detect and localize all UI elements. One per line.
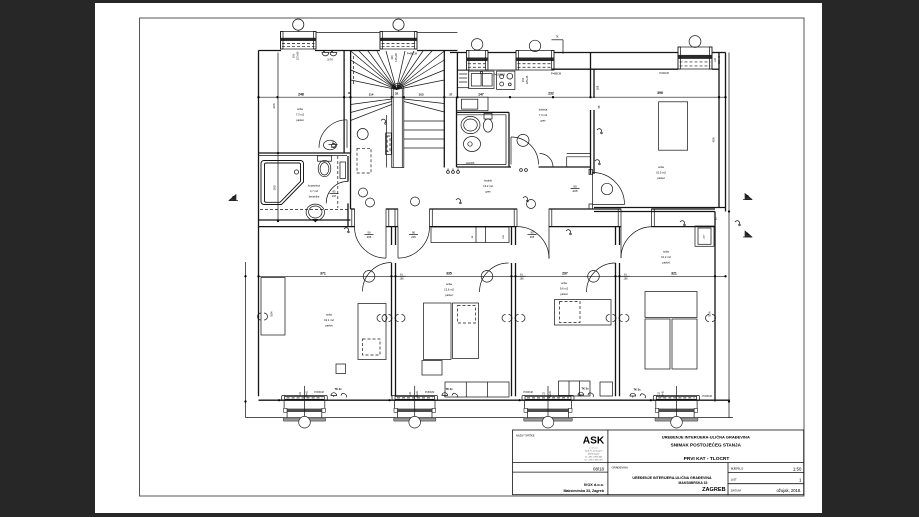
tall cabinet room1 xyxy=(261,278,285,336)
svg-text:GRAĐEVINA: GRAĐEVINA xyxy=(612,465,629,469)
svg-text:P=138CM: P=138CM xyxy=(493,72,505,76)
svg-text:100: 100 xyxy=(292,53,296,58)
svg-text:122: 122 xyxy=(658,391,661,396)
svg-text:137+60: 137+60 xyxy=(296,51,300,60)
svg-text:122: 122 xyxy=(409,391,412,396)
kitchen wall inner line xyxy=(457,69,466,71)
svg-text:296: 296 xyxy=(272,103,276,108)
svg-text:504: 504 xyxy=(708,311,712,316)
kitchen sink xyxy=(469,71,494,88)
closet niche xyxy=(457,97,489,111)
svg-text:205: 205 xyxy=(411,235,416,239)
lamp circles bedrooms xyxy=(363,271,375,283)
svg-text:37: 37 xyxy=(449,92,453,96)
bath B tub xyxy=(461,116,480,133)
door D3 swing xyxy=(548,227,550,259)
stair post xyxy=(386,133,392,155)
bottom window/balcony 3 xyxy=(522,395,574,400)
dimension line y276 xyxy=(259,275,726,277)
corridor left wall xyxy=(347,156,349,181)
door rooms1-2 arc xyxy=(363,263,392,292)
window W4 (hall) xyxy=(516,51,554,71)
bath A dashed ceiling line xyxy=(260,208,348,210)
svg-text:205: 205 xyxy=(572,189,577,193)
svg-text:P=83CM: P=83CM xyxy=(702,395,711,398)
svg-text:P=83CM: P=83CM xyxy=(523,391,532,394)
svg-text:10000 Zagreb: 10000 Zagreb xyxy=(588,453,600,456)
svg-text:soba: soba xyxy=(297,107,303,111)
svg-text:399: 399 xyxy=(657,91,663,95)
kitchen stove xyxy=(497,71,515,89)
svg-text:parket: parket xyxy=(296,118,304,122)
svg-text:TK 3x: TK 3x xyxy=(445,387,453,391)
bath A bottom wall xyxy=(259,219,351,221)
left dim line xyxy=(245,262,247,418)
svg-text:08/18: 08/18 xyxy=(593,467,605,472)
svg-text:soba: soba xyxy=(658,165,664,169)
right exterior wall upper xyxy=(718,53,720,208)
svg-text:gres: gres xyxy=(540,119,546,123)
svg-text:P=88CM: P=88CM xyxy=(551,72,561,76)
svg-text:parket: parket xyxy=(662,261,670,265)
door rooms2-3 arc xyxy=(480,263,509,292)
door rooms3-4 arc xyxy=(587,263,616,292)
stairs fan xyxy=(351,80,397,90)
svg-text:205: 205 xyxy=(367,235,372,239)
svg-text:10,2 m2: 10,2 m2 xyxy=(661,255,671,259)
svg-text:7,3 m2: 7,3 m2 xyxy=(539,113,548,117)
svg-text:13,6 m2: 13,6 m2 xyxy=(444,288,454,292)
svg-text:MJERILO: MJERILO xyxy=(731,466,744,470)
svg-text:parket: parket xyxy=(445,293,453,297)
TK mark top-left xyxy=(322,53,329,56)
beds room2 xyxy=(424,303,452,360)
svg-text:120: 120 xyxy=(714,57,717,62)
svg-text:TK 3x: TK 3x xyxy=(581,387,589,391)
left exterior wall xyxy=(258,51,260,227)
svg-text:103: 103 xyxy=(418,93,423,97)
bathroom B walls xyxy=(456,97,458,167)
svg-text:kupaonica: kupaonica xyxy=(308,184,320,188)
door jambs xyxy=(352,209,355,227)
window W3 (kitchen) xyxy=(466,51,488,71)
door D4 swing xyxy=(620,227,622,259)
svg-text:P=83CM: P=83CM xyxy=(425,391,434,394)
svg-text:MAKSIMIRSKA 33: MAKSIMIRSKA 33 xyxy=(679,481,708,485)
svg-text:IVOX d.o.o.: IVOX d.o.o. xyxy=(584,483,604,487)
svg-text:P=60CM: P=60CM xyxy=(659,72,668,75)
shower tray xyxy=(261,161,304,205)
svg-text:85: 85 xyxy=(333,190,336,194)
lamp circle hall xyxy=(517,134,529,146)
roof edge line xyxy=(316,31,380,33)
stairs newel xyxy=(392,83,404,167)
lamp circle stair hall xyxy=(357,129,368,140)
svg-text:168: 168 xyxy=(596,85,600,90)
svg-text:248: 248 xyxy=(298,92,304,96)
window W1 with vent circle xyxy=(281,32,317,50)
svg-text:90+61: 90+61 xyxy=(549,390,552,397)
section flag B right xyxy=(745,194,752,200)
svg-text:197: 197 xyxy=(331,145,336,149)
svg-text:297: 297 xyxy=(562,271,568,275)
door D1 swing xyxy=(385,227,387,259)
svg-text:P=83CM: P=83CM xyxy=(314,391,323,394)
svg-text:hodnik: hodnik xyxy=(484,179,493,183)
vent symbols xyxy=(447,171,450,174)
svg-text:parket: parket xyxy=(657,176,665,180)
bath A door arc xyxy=(326,181,348,203)
svg-text:205: 205 xyxy=(530,235,535,239)
bath B basin xyxy=(464,137,481,152)
svg-text:125+45: 125+45 xyxy=(394,53,398,62)
svg-text:122: 122 xyxy=(299,391,302,396)
corridor wall top line xyxy=(351,208,355,210)
bath B wc xyxy=(484,114,492,120)
drawing frame xyxy=(140,18,805,496)
svg-text:1:50: 1:50 xyxy=(793,466,802,471)
right room bottom wall xyxy=(594,207,726,209)
svg-text:114: 114 xyxy=(369,93,374,97)
svg-text:parket: parket xyxy=(560,292,568,296)
svg-text:371: 371 xyxy=(320,271,326,275)
svg-text:9,6 m2: 9,6 m2 xyxy=(560,287,569,291)
svg-text:120/205: 120/205 xyxy=(466,162,475,165)
lamp circles corridor xyxy=(366,198,375,207)
shaft box xyxy=(695,226,714,246)
svg-text:UREĐENJE INTERIJERA-ULIČNA GRA: UREĐENJE INTERIJERA-ULIČNA GRAĐEVINA xyxy=(632,475,712,480)
bottom window/balcony 2 xyxy=(392,395,438,400)
bed room1 xyxy=(358,304,386,360)
right room table xyxy=(659,102,688,150)
top wall left section xyxy=(259,50,282,52)
wall rooms 2-3 xyxy=(511,227,513,245)
svg-text:100: 100 xyxy=(521,77,525,82)
svg-text:504: 504 xyxy=(270,311,274,316)
corridor door to right room xyxy=(589,169,593,174)
svg-text:soba: soba xyxy=(663,250,669,254)
radiator dashed (corridor) xyxy=(357,148,371,173)
radiator symbols xyxy=(382,315,386,322)
svg-text:gres: gres xyxy=(485,190,491,194)
svg-text:147: 147 xyxy=(478,92,484,96)
wall rooms 1-2 xyxy=(391,227,393,245)
svg-text:7,3 m2: 7,3 m2 xyxy=(296,113,305,117)
right section inner wall line xyxy=(552,68,678,70)
switch squiggles xyxy=(381,119,386,123)
svg-text:soba: soba xyxy=(446,282,452,286)
svg-text:408: 408 xyxy=(712,137,716,142)
wall rooms 3-4 xyxy=(615,227,617,245)
svg-text:90: 90 xyxy=(531,231,534,235)
corridor wall bottom line xyxy=(351,226,355,228)
svg-text:321: 321 xyxy=(671,271,677,275)
svg-text:a t e l j e r: a t e l j e r xyxy=(589,447,598,450)
svg-text:Maksimirska 33, Zagreb: Maksimirska 33, Zagreb xyxy=(563,489,604,493)
lamp circle right xyxy=(601,183,612,194)
hall small door arc xyxy=(540,154,554,168)
vertical dim line left (296/180) xyxy=(277,53,279,222)
svg-text:ASK: ASK xyxy=(583,436,605,447)
svg-text:13,2 m2: 13,2 m2 xyxy=(483,184,493,188)
svg-text:125+45: 125+45 xyxy=(525,75,529,84)
pedestal sink xyxy=(306,204,324,220)
bottom window/balcony 1 xyxy=(282,395,328,400)
svg-text:UREĐENJE INTERIJERA-ULIČNA GRA: UREĐENJE INTERIJERA-ULIČNA GRAĐEVINA xyxy=(662,434,750,439)
svg-text:TK 3x: TK 3x xyxy=(334,387,342,391)
nightstand room1 xyxy=(336,364,346,374)
ground line xyxy=(246,417,734,419)
svg-text:TK: TK xyxy=(555,36,558,39)
svg-text:ožujak, 2018.: ožujak, 2018. xyxy=(776,488,801,493)
white sheet xyxy=(95,3,822,513)
bath A radiator xyxy=(340,162,346,179)
stair-kitchen wall xyxy=(456,53,458,98)
svg-text:232: 232 xyxy=(548,92,554,96)
kitchen cabinet left xyxy=(457,70,468,87)
svg-text:kuhinja: kuhinja xyxy=(539,108,548,112)
svg-text:198: 198 xyxy=(520,278,525,281)
svg-text:90: 90 xyxy=(412,231,415,235)
stairs right wall xyxy=(443,51,445,168)
svg-text:soba: soba xyxy=(561,281,567,285)
svg-text:90+61: 90+61 xyxy=(662,390,665,397)
svg-text:122: 122 xyxy=(542,391,545,396)
svg-text:90+61: 90+61 xyxy=(416,390,419,397)
svg-text:198: 198 xyxy=(624,278,629,281)
svg-text:+107: +107 xyxy=(704,234,706,240)
dresser room2 xyxy=(445,382,509,397)
svg-text:Trg N. Š. Zrinskog 17: Trg N. Š. Zrinskog 17 xyxy=(585,450,603,453)
svg-text:19,1 m2: 19,1 m2 xyxy=(324,318,334,322)
corner sink room A xyxy=(324,140,337,150)
svg-text:parket: parket xyxy=(325,324,333,328)
svg-text:90+61: 90+61 xyxy=(306,390,309,397)
right dim line xyxy=(728,53,730,418)
svg-text:335: 335 xyxy=(446,271,452,275)
svg-text:10,5 m2: 10,5 m2 xyxy=(656,171,666,175)
svg-text:198: 198 xyxy=(400,278,405,281)
svg-text:tel: +385 1 4855 666: tel: +385 1 4855 666 xyxy=(585,456,602,459)
bottom window/balcony 4 xyxy=(653,395,699,400)
svg-text:fax: +385 1 4855 333: fax: +385 1 4855 333 xyxy=(585,459,603,461)
toilet bath A xyxy=(318,156,332,161)
table room2 xyxy=(422,361,442,376)
svg-text:2xTK: 2xTK xyxy=(327,59,333,62)
hall jog wall xyxy=(567,153,591,155)
svg-text:DATUM: DATUM xyxy=(731,489,742,493)
top wall kitchen band xyxy=(450,52,466,54)
svg-text:soba: soba xyxy=(326,313,332,317)
window W5 (right room) xyxy=(678,47,712,69)
door room A to hall arc xyxy=(319,120,347,148)
svg-text:SNIMAK POSTOJEĆEG STANJA: SNIMAK POSTOJEĆEG STANJA xyxy=(671,440,742,447)
door D2 swing xyxy=(397,227,399,259)
hall right wall xyxy=(590,53,592,99)
svg-text:NAZIV TVRTKE: NAZIV TVRTKE xyxy=(516,434,535,438)
title block grid xyxy=(513,430,804,495)
svg-text:TK 3x: TK 3x xyxy=(633,388,641,392)
svg-text:90: 90 xyxy=(573,185,577,189)
dresser room3 xyxy=(559,381,591,396)
TK bracket right xyxy=(552,39,564,41)
right exterior wall lower xyxy=(714,212,716,402)
bed room4 xyxy=(645,292,697,318)
bath B door arc xyxy=(511,137,539,165)
window W2 (above stairs) with vent circle xyxy=(380,32,417,50)
svg-text:PRVI KAT - TLOCRT: PRVI KAT - TLOCRT xyxy=(684,456,730,462)
svg-text:keramika: keramika xyxy=(309,195,320,199)
nightstand room3 xyxy=(600,382,613,396)
dimension line y97 xyxy=(259,96,726,98)
closet room2 xyxy=(431,227,509,243)
dashed line stairwell left xyxy=(353,56,355,85)
svg-text:4,7 m2: 4,7 m2 xyxy=(310,189,318,193)
svg-text:90: 90 xyxy=(368,231,371,235)
bottom exterior wall xyxy=(259,399,730,401)
svg-text:32: 32 xyxy=(395,91,399,95)
svg-text:ZAGREB: ZAGREB xyxy=(702,487,726,493)
svg-text:LIST: LIST xyxy=(731,478,737,482)
section flag B left xyxy=(229,195,236,201)
svg-text:197: 197 xyxy=(332,194,337,198)
stair railing xyxy=(385,115,387,168)
bath A dashed pipe line xyxy=(337,156,339,208)
desk room3 xyxy=(555,300,612,326)
stair treads xyxy=(404,99,445,104)
section flag A right xyxy=(745,231,752,237)
svg-text:180: 180 xyxy=(272,185,276,190)
room A right wall xyxy=(343,51,345,154)
svg-text:71: 71 xyxy=(332,141,335,145)
svg-text:100: 100 xyxy=(390,55,394,60)
bath A top wall xyxy=(259,152,351,154)
